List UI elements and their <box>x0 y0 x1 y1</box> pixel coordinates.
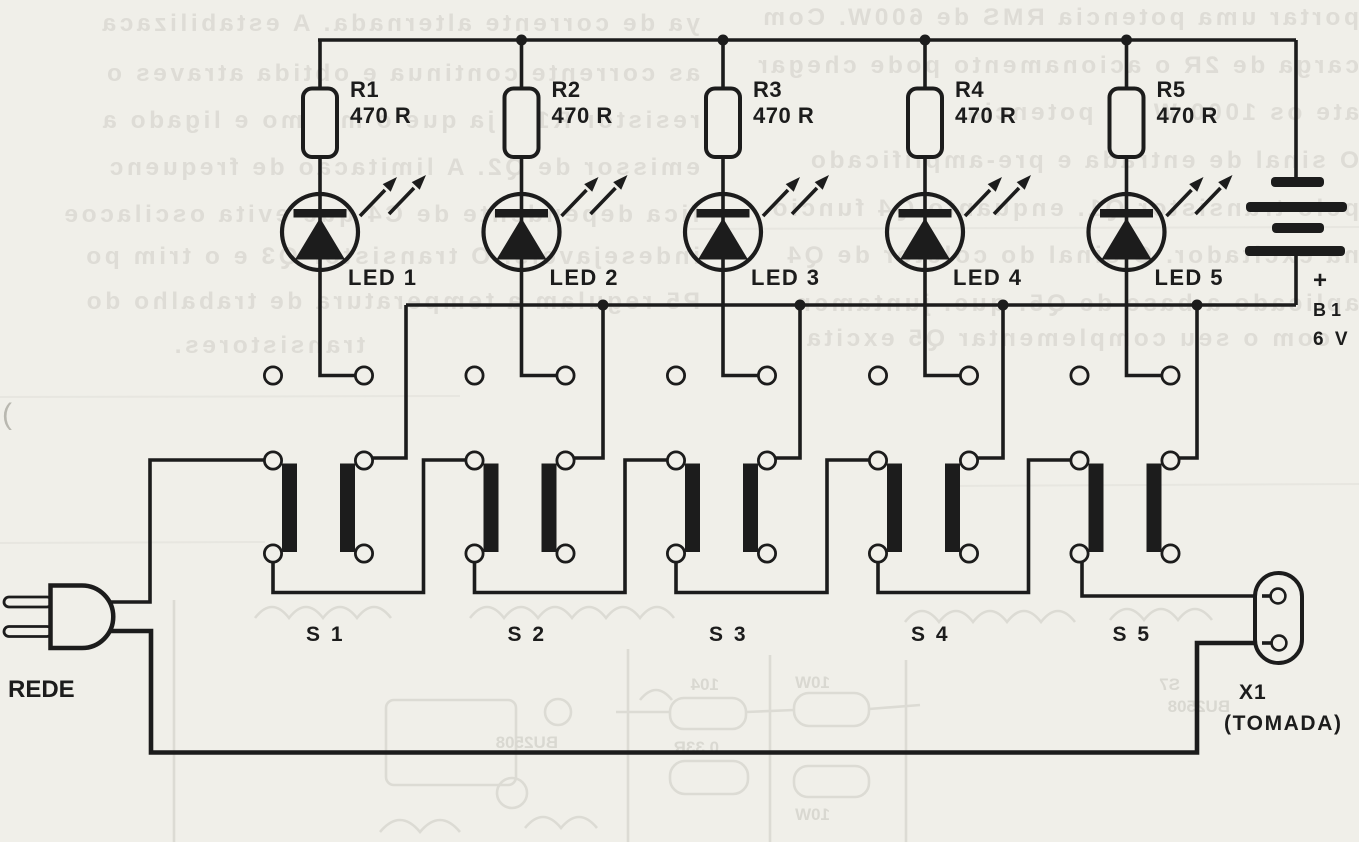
wire: R5/LED5 branch from top bus to S5 contact <box>1127 40 1171 376</box>
svg-text:S 1: S 1 <box>306 623 345 646</box>
wire: middle bus feed to S2 right pole <box>566 305 604 458</box>
svg-text:LED 4: LED 4 <box>953 265 1022 290</box>
svg-text:LED 5: LED 5 <box>1155 265 1224 290</box>
svg-text:carga de 2R o acionamento pode: carga de 2R o acionamento pode chegar <box>755 52 1359 79</box>
svg-text:10W: 10W <box>794 673 830 692</box>
wire: top supply bus <box>318 38 1296 42</box>
svg-text:LED 1: LED 1 <box>348 265 417 290</box>
node: top bus junction at R3 <box>718 35 729 46</box>
svg-text:REDE: REDE <box>8 676 75 703</box>
svg-text:104: 104 <box>690 675 719 694</box>
svg-text:+: + <box>1313 267 1327 294</box>
svg-text:6 V: 6 V <box>1313 329 1351 350</box>
svg-text:as corrente continua e obtida: as corrente continua e obtida atraves o <box>103 60 700 87</box>
svg-text:470 R: 470 R <box>552 103 613 128</box>
node: middle bus junction to S2 <box>598 300 609 311</box>
battery B1 6V <box>1245 177 1351 350</box>
svg-text:470 R: 470 R <box>1157 103 1218 128</box>
wire: middle bus feed to S4 right pole <box>969 305 1003 458</box>
svg-text:LED 3: LED 3 <box>751 265 820 290</box>
svg-text:R5: R5 <box>1157 77 1186 102</box>
node: middle bus junction to S4 <box>998 300 1009 311</box>
wire: plug bottom prong, bottom bus to X1 socket <box>106 631 1273 753</box>
wire: R1/LED1 branch from top bus to S1 contact <box>320 40 364 376</box>
svg-text:B1: B1 <box>1313 300 1346 320</box>
resistor R1 <box>303 77 411 157</box>
node: X1 top contact <box>1271 589 1286 604</box>
resistor R4 <box>908 77 1016 157</box>
svg-text:R2: R2 <box>552 77 581 102</box>
svg-text:S 3: S 3 <box>709 623 748 646</box>
svg-text:(: ( <box>2 398 12 431</box>
node: X1 bottom contact <box>1272 636 1287 651</box>
mains plug REDE <box>4 586 113 704</box>
svg-text:emissor de Q2. A limitacao de: emissor de Q2. A limitacao de frequenc <box>106 154 700 181</box>
switch S5 <box>1071 367 1179 646</box>
resistor R3 <box>706 77 814 157</box>
switch S1 <box>264 367 372 646</box>
LED 1 <box>282 175 426 290</box>
svg-text:ya de corrente alternada. A es: ya de corrente alternada. A estabilizaca <box>99 10 700 37</box>
node: middle bus junction to S5 <box>1192 300 1203 311</box>
svg-text:com o seu complementar Q5 exc: com o seu complementar Q5 excita <box>804 325 1330 352</box>
wire: R2/LED2 branch from top bus to S2 contact <box>522 40 566 376</box>
wire: into X1 bottom contact <box>1262 641 1275 645</box>
svg-text:P5 regulam a temperatura de tr: P5 regulam a temperatura de trabalho do <box>83 288 700 315</box>
node: top bus junction at R5 <box>1121 35 1132 46</box>
svg-text:O sinal de entrada e pre-ampli: O sinal de entrada e pre-amplificado <box>807 147 1359 174</box>
wire: middle bus from battery minus to switches <box>406 303 1296 307</box>
LED 3 <box>685 175 829 290</box>
svg-text:S 5: S 5 <box>1113 623 1152 646</box>
svg-text:10W: 10W <box>794 805 830 824</box>
svg-text:470 R: 470 R <box>955 103 1016 128</box>
wire: S5 lower contact to X1 socket top <box>1082 554 1271 597</box>
wire: battery B1 bottom plate to middle bus <box>1294 254 1298 305</box>
wire: S1 lower contact to S2 left pole <box>273 460 475 593</box>
wire: plug top prong to S1 left pole <box>106 460 272 602</box>
resistor R5 <box>1110 77 1218 157</box>
socket X1 (TOMADA) <box>1255 573 1302 663</box>
svg-text:S 2: S 2 <box>508 623 547 646</box>
svg-text:transistores.: transistores. <box>171 332 365 359</box>
label X1 (TOMADA) <box>1224 681 1343 735</box>
svg-text:R1: R1 <box>350 77 379 102</box>
node: middle bus junction to S3 <box>795 300 806 311</box>
wire: S3 lower contact to S4 left pole <box>676 460 878 593</box>
svg-text:S7: S7 <box>1159 675 1180 694</box>
svg-text:(TOMADA): (TOMADA) <box>1224 712 1343 735</box>
node: top bus junction at R4 <box>920 35 931 46</box>
wire: middle bus feed to S5 right pole <box>1171 305 1198 458</box>
LED 4 <box>887 175 1031 290</box>
switch S3 <box>667 367 775 646</box>
wire: R4/LED4 branch from top bus to S4 contact <box>925 40 969 376</box>
wire: into X1 top contact <box>1262 594 1274 598</box>
wire: S4 lower contact to S5 left pole <box>878 460 1080 593</box>
switch S2 <box>466 367 574 646</box>
resistor R2 <box>505 77 613 157</box>
wire: top bus to battery B1 top plate <box>1294 40 1298 178</box>
wire: S2 lower contact to S3 left pole <box>475 460 677 593</box>
switch S4 <box>869 367 977 646</box>
svg-text:LED 2: LED 2 <box>550 265 619 290</box>
svg-text:R3: R3 <box>753 77 782 102</box>
wire: R3/LED3 branch from top bus to S3 contact <box>723 40 767 376</box>
wire: middle bus feed to S1 right pole <box>364 305 406 458</box>
svg-text:S 4: S 4 <box>911 623 950 646</box>
svg-text:470 R: 470 R <box>350 103 411 128</box>
svg-text:X1: X1 <box>1239 681 1267 704</box>
svg-text:470 R: 470 R <box>753 103 814 128</box>
node: top bus junction at R2 <box>516 35 527 46</box>
svg-text:fica dependente de C4 que evit: fica dependente de C4 que evita oscilaco… <box>61 201 700 228</box>
svg-text:portar uma potencia RMS de 600: portar uma potencia RMS de 600W. Com <box>760 4 1359 31</box>
LED 2 <box>484 175 628 290</box>
svg-text:BU2508: BU2508 <box>496 733 558 752</box>
LED 5 <box>1089 175 1233 290</box>
wire: middle bus feed to S3 right pole <box>767 305 800 458</box>
svg-text:R4: R4 <box>955 77 984 102</box>
